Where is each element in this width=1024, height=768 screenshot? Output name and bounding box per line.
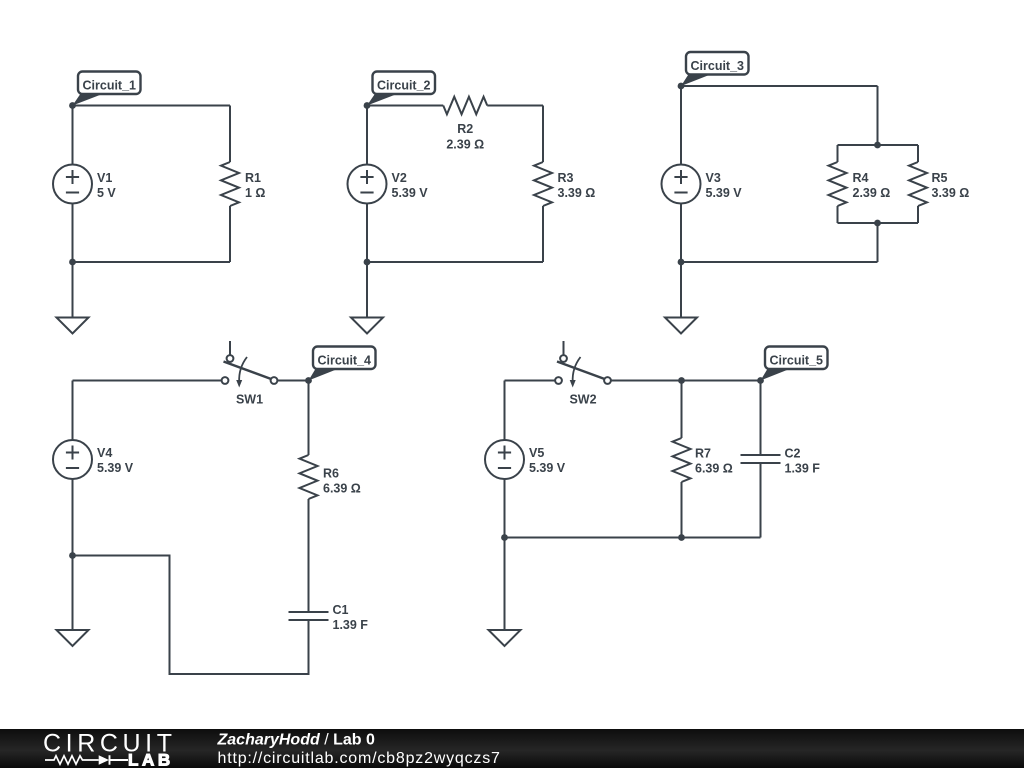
svg-text:R6: R6 xyxy=(323,467,339,481)
wire xyxy=(73,261,231,263)
footer bar xyxy=(0,729,1024,768)
wire xyxy=(229,206,231,262)
svg-text:5 V: 5 V xyxy=(97,186,116,200)
wire xyxy=(680,204,682,263)
svg-text:1.39 F: 1.39 F xyxy=(785,462,821,476)
node Circuit_4 xyxy=(305,347,375,384)
voltage source V4 xyxy=(53,440,134,479)
resistor R6 xyxy=(300,455,361,499)
wire xyxy=(278,380,309,382)
svg-text:V3: V3 xyxy=(706,171,721,185)
svg-text:5.39 V: 5.39 V xyxy=(706,186,743,200)
wire xyxy=(760,463,762,538)
svg-text:Circuit_2: Circuit_2 xyxy=(377,78,431,92)
junction xyxy=(69,552,76,559)
wire xyxy=(505,380,556,382)
svg-text:V1: V1 xyxy=(97,171,112,185)
ground xyxy=(489,538,521,647)
svg-text:5.39 V: 5.39 V xyxy=(392,186,429,200)
svg-text:1 Ω: 1 Ω xyxy=(245,186,265,200)
svg-text:R7: R7 xyxy=(695,447,711,461)
junction xyxy=(678,534,685,541)
svg-text:6.39 Ω: 6.39 Ω xyxy=(695,462,733,476)
capacitor C1 xyxy=(289,603,369,632)
junction xyxy=(501,534,508,541)
ground xyxy=(351,262,383,334)
voltage source V1 xyxy=(53,165,116,204)
junction xyxy=(678,377,685,384)
wire xyxy=(73,380,222,382)
wire xyxy=(73,105,231,107)
wire xyxy=(760,381,762,456)
svg-text:3.39 Ω: 3.39 Ω xyxy=(932,186,970,200)
svg-text:R2: R2 xyxy=(457,122,473,136)
wire xyxy=(611,380,761,382)
wire xyxy=(72,381,74,441)
footer title xyxy=(217,732,375,749)
ground xyxy=(57,556,89,647)
svg-text:ZacharyHodd / Lab 0: ZacharyHodd / Lab 0 xyxy=(217,732,375,749)
wire xyxy=(504,381,506,441)
svg-text:Circuit_5: Circuit_5 xyxy=(770,353,824,367)
wire xyxy=(504,479,506,538)
node Circuit_1 xyxy=(69,72,140,109)
ground xyxy=(57,262,89,334)
wire xyxy=(308,381,310,456)
junction xyxy=(874,142,881,149)
svg-text:SW1: SW1 xyxy=(236,393,263,407)
wire xyxy=(837,206,839,223)
wire xyxy=(877,86,879,145)
resistor R7 xyxy=(673,438,733,482)
wire xyxy=(72,204,74,263)
svg-text:5.39 V: 5.39 V xyxy=(529,461,566,475)
svg-text:Circuit_3: Circuit_3 xyxy=(691,59,745,73)
wire xyxy=(542,106,544,163)
node Circuit_5 xyxy=(757,347,827,384)
wire xyxy=(681,261,878,263)
svg-text:5.39 V: 5.39 V xyxy=(97,461,134,475)
node Circuit_3 xyxy=(678,52,749,89)
svg-text:Circuit_4: Circuit_4 xyxy=(318,353,372,367)
svg-text:C2: C2 xyxy=(785,447,801,461)
junction xyxy=(678,259,685,266)
svg-text:C1: C1 xyxy=(333,603,349,617)
wire xyxy=(542,206,544,262)
wire xyxy=(367,261,543,263)
voltage source V3 xyxy=(662,165,743,204)
CircuitLab logo text LAB xyxy=(128,751,174,768)
svg-text:2.39 Ω: 2.39 Ω xyxy=(853,186,891,200)
wire xyxy=(681,85,878,87)
wire xyxy=(73,556,309,675)
wire xyxy=(837,145,839,162)
wire xyxy=(308,499,310,612)
svg-text:R4: R4 xyxy=(853,171,869,185)
svg-text:6.39 Ω: 6.39 Ω xyxy=(323,482,361,496)
resistor R3 xyxy=(534,162,595,206)
wire xyxy=(366,106,368,165)
svg-text:V5: V5 xyxy=(529,446,544,460)
junction xyxy=(364,259,371,266)
wire xyxy=(681,482,683,538)
svg-text:SW2: SW2 xyxy=(569,393,596,407)
switch SW1 xyxy=(222,341,278,407)
resistor R1 xyxy=(221,162,265,206)
wire xyxy=(229,106,231,163)
capacitor C2 xyxy=(741,447,821,476)
svg-text:2.39 Ω: 2.39 Ω xyxy=(446,138,484,152)
wire xyxy=(917,206,919,223)
resistor R4 xyxy=(829,162,891,206)
wire xyxy=(366,204,368,263)
wire xyxy=(877,223,879,262)
svg-text:V2: V2 xyxy=(392,171,407,185)
wire xyxy=(838,222,919,224)
svg-text:http://circuitlab.com/cb8pz2wy: http://circuitlab.com/cb8pz2wyqczs7 xyxy=(218,750,501,767)
svg-text:1.39 F: 1.39 F xyxy=(333,618,369,632)
wire xyxy=(505,537,761,539)
footer url xyxy=(218,750,501,767)
svg-text:R5: R5 xyxy=(932,171,948,185)
voltage source V2 xyxy=(348,165,429,204)
svg-text:3.39 Ω: 3.39 Ω xyxy=(558,186,596,200)
svg-text:V4: V4 xyxy=(97,446,112,460)
resistor R5 xyxy=(909,162,969,206)
svg-text:Circuit_1: Circuit_1 xyxy=(83,78,137,92)
wire xyxy=(917,145,919,162)
wire xyxy=(680,86,682,165)
wire xyxy=(681,381,683,439)
svg-text:LAB: LAB xyxy=(128,751,174,768)
voltage source V5 xyxy=(485,440,566,479)
wire xyxy=(838,144,919,146)
junction xyxy=(69,259,76,266)
wire xyxy=(367,105,443,107)
node Circuit_2 xyxy=(364,72,435,109)
logo resistor-diode line xyxy=(45,755,128,765)
ground xyxy=(665,262,697,334)
svg-text:R1: R1 xyxy=(245,171,261,185)
resistor R2 xyxy=(443,97,487,152)
switch SW2 xyxy=(555,341,611,407)
svg-text:R3: R3 xyxy=(558,171,574,185)
junction xyxy=(874,220,881,227)
wire xyxy=(72,479,74,556)
wire xyxy=(72,106,74,165)
CircuitLab logo text CIRCUIT xyxy=(43,730,177,758)
wire xyxy=(487,105,543,107)
